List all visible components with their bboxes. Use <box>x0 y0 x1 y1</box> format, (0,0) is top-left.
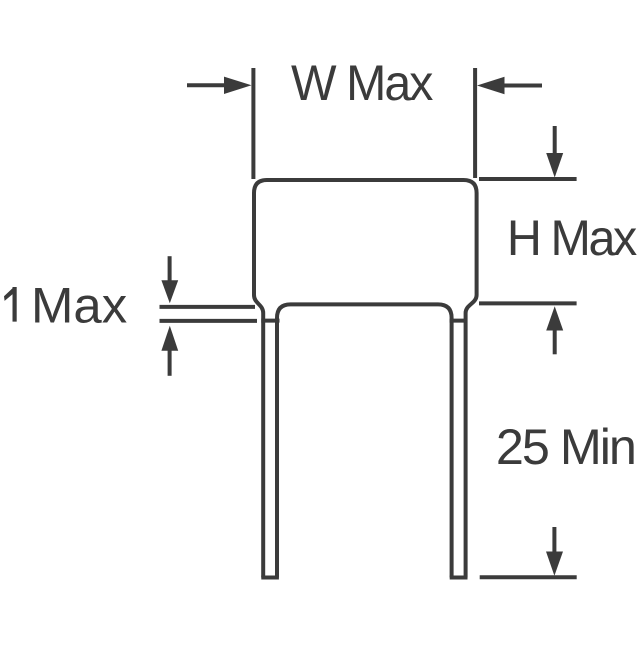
1 Max down arrow tail <box>168 256 172 282</box>
W dim right arrowhead <box>477 77 505 94</box>
H dim bottom arrowhead <box>546 306 563 330</box>
svg-text:Max: Max <box>31 277 127 333</box>
left lead bottom <box>261 576 279 580</box>
25 Min bottom arrowhead <box>546 552 563 576</box>
W dim right extension line <box>473 68 477 178</box>
H dim top arrowhead <box>546 153 563 178</box>
svg-text:25 Min: 25 Min <box>496 419 635 475</box>
right body foot line <box>450 319 468 323</box>
left body foot line <box>261 319 279 323</box>
right lead bottom <box>450 576 468 580</box>
W dim left arrow tail <box>187 83 228 87</box>
body bottom edge and lead inner edges <box>277 304 452 577</box>
capacitor body outline <box>254 180 477 578</box>
W dim left extension line <box>251 68 255 179</box>
label 1 Max <box>4 287 17 322</box>
svg-text:W Max: W Max <box>291 55 433 111</box>
25 Min down arrow tail <box>552 527 556 554</box>
1 Max upper dim line <box>160 305 256 309</box>
1 Max down arrowhead <box>161 280 178 303</box>
1 Max lower dim line <box>160 319 258 323</box>
W dim left arrowhead <box>224 77 252 94</box>
svg-text:H Max: H Max <box>507 210 637 266</box>
1 Max up arrow tail <box>168 351 172 376</box>
1 Max up arrowhead <box>161 326 178 351</box>
H dim up arrow tail <box>553 329 557 354</box>
H dim top tick <box>479 177 577 181</box>
lead bottom tick <box>480 575 577 579</box>
H dim bottom tick <box>479 301 577 305</box>
W dim right arrow tail <box>502 84 542 88</box>
H dim down arrow tail <box>553 126 557 154</box>
